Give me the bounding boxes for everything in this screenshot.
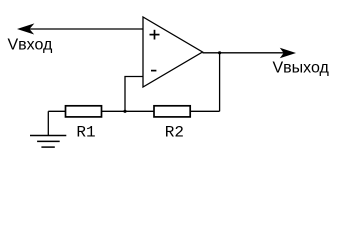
svg-text:R1: R1 bbox=[76, 123, 95, 141]
svg-text:Vвыход: Vвыход bbox=[273, 59, 330, 76]
svg-text:Vвход: Vвход bbox=[8, 37, 54, 54]
svg-text:R2: R2 bbox=[165, 123, 184, 141]
